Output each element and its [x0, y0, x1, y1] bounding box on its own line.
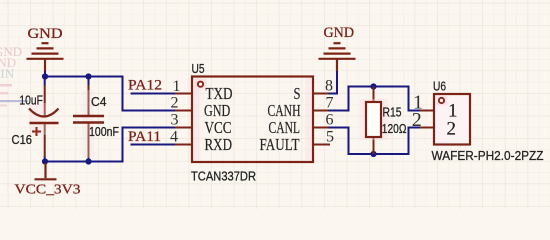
svg-text:7: 7: [326, 95, 334, 112]
resistor R15 leads: [373, 87, 375, 155]
svg-text:2: 2: [171, 95, 179, 112]
U5 pin stubs right: [313, 94, 330, 145]
pin names right: [260, 84, 301, 154]
capacitor C4 plates: [73, 116, 104, 123]
connector U6 pin stubs: [420, 111, 434, 128]
pin names left: [204, 84, 233, 154]
svg-text:100nF: 100nF: [89, 125, 119, 139]
svg-text:10uF: 10uF: [19, 94, 43, 108]
wire CANH loop (top): [329, 87, 421, 111]
wire: GND to pin8: [329, 71, 338, 94]
ground symbol (left power port): [27, 43, 64, 71]
svg-text:C4: C4: [91, 95, 107, 109]
svg-text:U5: U5: [192, 62, 205, 76]
svg-text:WAFER-PH2.0-2PZZ: WAFER-PH2.0-2PZZ: [432, 148, 544, 163]
op-amp U5 pin stubs left: [175, 94, 192, 145]
artifact tint around C16: [29, 103, 46, 135]
svg-text:FAULT: FAULT: [260, 135, 300, 154]
svg-text:6: 6: [326, 112, 334, 129]
connector U6 pin numbers outside: [412, 92, 423, 132]
node: junction C4 bottom: [85, 158, 91, 164]
svg-text:RXD: RXD: [205, 135, 233, 154]
artifact tint around R15: [360, 99, 388, 140]
artifact halo at U6 ring: [436, 96, 447, 106]
node: R15 top junction: [370, 83, 376, 89]
svg-text:PA12: PA12: [128, 78, 162, 94]
node: junction C16 bottom: [42, 158, 48, 164]
wire: bottom rail: [45, 128, 123, 162]
ground symbol (right power port): [319, 43, 356, 71]
chip U5 pin1 indicator ring: [198, 82, 203, 87]
svg-text:8: 8: [325, 78, 333, 95]
ghost artifact wire fragment: [0, 100, 28, 102]
connector U6 pin names inside: [447, 101, 458, 140]
node: junction C16 top: [42, 73, 48, 79]
ghost artifact text left edge: [0, 44, 22, 81]
svg-text:2: 2: [447, 119, 457, 140]
svg-text:4: 4: [170, 129, 178, 146]
chip U5 body: [192, 77, 313, 163]
svg-text:GND: GND: [28, 26, 63, 42]
svg-text:2: 2: [412, 109, 422, 131]
artifact halo at U5 ring: [195, 79, 207, 90]
svg-text:C16: C16: [12, 133, 33, 147]
svg-text:5: 5: [326, 128, 334, 145]
artifact tint inside chip edges: [194, 78, 200, 160]
wire: C4 top lead blue segment: [88, 77, 90, 86]
svg-text:VCC_3V3: VCC_3V3: [15, 183, 81, 198]
wire CANL loop (bottom): [329, 128, 421, 155]
pin numbers left: [170, 78, 181, 146]
artifact tint around C4: [82, 90, 94, 158]
svg-text:PA11: PA11: [128, 129, 161, 145]
wire: C4 bottom lead blue segment: [88, 156, 90, 162]
capacitor C16 straight plate: [30, 122, 59, 124]
capacitor C16 leads: [44, 85, 46, 157]
connector U6 pin1 indicator ring: [439, 98, 444, 103]
pin numbers right: [325, 78, 334, 146]
node: junction C4 top: [85, 73, 91, 79]
svg-text:1: 1: [173, 78, 181, 95]
capacitor C4 leads: [88, 85, 90, 157]
power port VCC_3V3: [35, 163, 57, 179]
wire: top rail: [45, 77, 175, 111]
wire: C16 top lead blue segment: [44, 77, 46, 86]
svg-text:3: 3: [171, 112, 179, 129]
connector U6 body: [434, 94, 470, 145]
ghost artifact smudges: [0, 84, 12, 87]
svg-text:R15: R15: [383, 106, 402, 120]
svg-text:GND: GND: [324, 25, 355, 41]
wire: C16 bottom lead blue segment: [44, 156, 46, 162]
node: R15 bottom junction: [370, 151, 376, 157]
svg-text:AIN: AIN: [0, 66, 15, 81]
wire: left GND stem to top rail: [44, 71, 46, 77]
capacitor C16 curved plate: [29, 109, 59, 117]
wire PA11: [131, 144, 176, 146]
svg-text:120Ω: 120Ω: [382, 122, 407, 136]
resistor R15 body: [366, 102, 381, 137]
wire PA12: [131, 93, 176, 95]
svg-text:TCAN337DR: TCAN337DR: [191, 169, 256, 184]
wire pin3 (VCC) row: [122, 127, 176, 129]
svg-text:U6: U6: [433, 80, 446, 94]
C16 plus sign: [32, 127, 41, 136]
